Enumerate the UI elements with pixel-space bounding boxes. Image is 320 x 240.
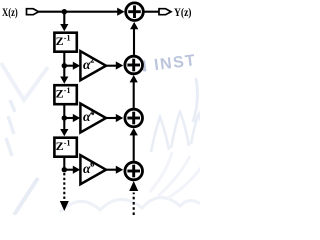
input port symbol bbox=[27, 9, 39, 15]
adder S4 bbox=[125, 162, 143, 180]
svg-text:N INST: N INST bbox=[134, 52, 197, 76]
wire: junction A to amp a2 bbox=[64, 62, 80, 70]
svg-text:Y(z): Y(z) bbox=[174, 7, 192, 19]
node: junction A (after Z1) bbox=[62, 63, 67, 68]
node: junction B (after Z2) bbox=[62, 115, 67, 120]
output port Y(z) label bbox=[174, 7, 192, 19]
wire: amp a6 to adder S4 bbox=[106, 166, 123, 174]
wire: junction down into Z1 bbox=[60, 12, 68, 32]
output port symbol bbox=[159, 9, 171, 15]
wire: dashed continuation below junction C bbox=[60, 173, 69, 211]
wire: junction C to amp a6 bbox=[64, 166, 80, 174]
wire: Z2 to Z3 bbox=[60, 106, 68, 137]
wire: Z1 to Z2 bbox=[60, 53, 68, 84]
amp a^6 (gain triangle) bbox=[80, 155, 106, 184]
background watermark seal (decorative) bbox=[1, 52, 204, 215]
amp a^2 (gain triangle) bbox=[80, 51, 106, 80]
node: junction C (after Z3) bbox=[62, 167, 67, 172]
svg-text:-1: -1 bbox=[64, 86, 71, 95]
wire: adder S4 up to adder S3 bbox=[130, 128, 138, 161]
wire: junction B to amp a4 bbox=[64, 114, 80, 122]
wire: amp a2 to adder S2 bbox=[106, 61, 123, 69]
wire: top horizontal X(z) to adder S1 bbox=[39, 8, 125, 16]
svg-text:-1: -1 bbox=[64, 139, 71, 148]
delay block Z^-1 #1 bbox=[54, 33, 76, 52]
wire: amp a4 to adder S3 bbox=[106, 114, 123, 122]
delay block Z^-1 #3 bbox=[54, 138, 76, 157]
adder S3 bbox=[125, 109, 143, 127]
svg-text:2: 2 bbox=[90, 56, 94, 65]
wire: dotted continuation into adder S4 from below bbox=[129, 181, 138, 215]
svg-text:Z: Z bbox=[56, 87, 64, 101]
wire: adder S3 up to adder S2 bbox=[130, 75, 138, 108]
delay block Z^-1 #2 bbox=[54, 85, 76, 104]
wire: adder S1 to output port bbox=[143, 11, 159, 13]
input port X(z) label bbox=[2, 7, 18, 19]
svg-text:Z: Z bbox=[56, 139, 64, 153]
svg-text:X(z): X(z) bbox=[2, 7, 18, 19]
adder S2 bbox=[125, 56, 143, 74]
svg-text:Z: Z bbox=[56, 34, 64, 48]
svg-text:-1: -1 bbox=[64, 34, 71, 43]
wire: adder S2 up to adder S1 bbox=[130, 22, 138, 55]
svg-text:4: 4 bbox=[90, 108, 94, 117]
node: top junction bbox=[62, 9, 67, 14]
adder S1 (top summer) bbox=[126, 3, 144, 21]
wire: Z3 down to junction C bbox=[63, 158, 65, 171]
svg-text:6: 6 bbox=[90, 160, 94, 169]
amp a^4 (gain triangle) bbox=[80, 104, 106, 133]
